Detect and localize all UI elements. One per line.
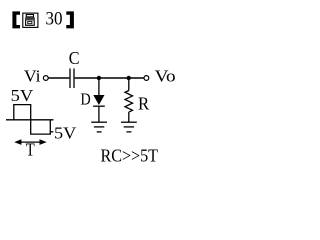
svg-text:5V: 5V [54,124,77,143]
svg-text:RC>>5T: RC>>5T [101,146,159,166]
svg-text:30: 30 [46,9,63,30]
svg-text:R: R [138,93,149,113]
svg-text:Vo: Vo [155,66,176,85]
svg-text:C: C [69,48,80,68]
svg-text:T: T [26,139,35,159]
svg-text:Vi: Vi [24,66,41,85]
svg-text:5V: 5V [11,86,34,105]
svg-text:D: D [81,90,91,109]
